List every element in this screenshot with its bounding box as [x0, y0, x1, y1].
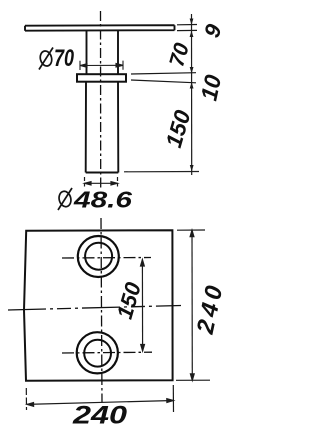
- base plate square: [24, 230, 173, 381]
- label 240 (right, vertical): [192, 280, 229, 338]
- svg-text:150: 150: [112, 279, 146, 322]
- svg-text:150: 150: [161, 107, 196, 150]
- label 240 (bottom): [72, 402, 127, 430]
- extension line from pipe bottom to right dim chain: [124, 171, 199, 173]
- bottom 240 dimension line: [27, 399, 173, 407]
- svg-text:240: 240: [72, 402, 127, 430]
- top plate (side view): [25, 25, 175, 31]
- svg-text:10: 10: [195, 72, 226, 103]
- svg-text:240: 240: [192, 280, 227, 338]
- svg-text:70: 70: [165, 40, 194, 69]
- arrows for 9: [190, 19, 194, 38]
- label 9: [199, 20, 227, 40]
- bottom hole inner circle (phi48.6): [84, 340, 111, 367]
- bottom hole centerline horizontal: [62, 351, 152, 354]
- top hole inner circle (phi48.6): [85, 243, 112, 270]
- vertical centerline (bottom view): [101, 218, 102, 402]
- arrows for 150 dim (top view): [190, 165, 194, 172]
- dimension phi70 line above flange: [80, 61, 123, 70]
- svg-text:70: 70: [54, 45, 74, 72]
- svg-text:9: 9: [199, 20, 227, 40]
- pipe bottom edge: [86, 172, 119, 174]
- extension lines for bottom 240: [26, 385, 173, 412]
- label 150 (vertical, top view): [161, 107, 196, 150]
- pipe upper section walls: [87, 31, 119, 74]
- extension lines for 10 (flange): [131, 73, 196, 83]
- 150 dimension line (bottom view): [141, 260, 145, 352]
- right dimension chain main line: [191, 14, 193, 175]
- flange (phi70 collar): [77, 74, 126, 82]
- vertical centerline of pipe (top view): [100, 11, 102, 188]
- arrows for 10: [190, 82, 194, 89]
- horizontal centerline of square: [8, 306, 181, 311]
- bottom hole outer circle (phi70 boss): [77, 332, 118, 373]
- top hole centerline horizontal: [62, 257, 151, 260]
- svg-text:48.6: 48.6: [73, 187, 133, 213]
- extension lines for 9 (plate thickness): [177, 25, 197, 31]
- top hole outer circle (phi70 boss): [78, 236, 119, 277]
- label 10 (vertical): [195, 72, 226, 103]
- right 240 dimension line: [190, 230, 194, 380]
- label 150 (bottom view): [112, 279, 146, 322]
- label 70 (vertical): [165, 40, 194, 69]
- label phi70: [39, 45, 75, 72]
- dimension phi48.6 below pipe: [85, 177, 118, 187]
- extension lines for right 240: [176, 230, 210, 380]
- label phi48.6: [57, 187, 132, 213]
- arrows for 70 dim: [190, 67, 194, 74]
- pipe lower section walls: [86, 82, 119, 173]
